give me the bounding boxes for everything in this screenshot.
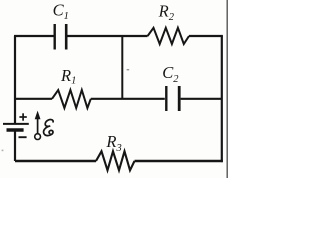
wire middle-left segment: [15, 98, 52, 100]
scan speck near C2: [127, 69, 130, 70]
wire middle-center segment: [91, 98, 165, 100]
wire bottom-left segment: [15, 160, 96, 162]
capacitor C1: [55, 24, 66, 50]
battery: [3, 124, 29, 130]
wire top-middle segment: [67, 35, 148, 37]
wire top-left segment: [14, 35, 54, 37]
wire top-right segment: [189, 35, 223, 37]
scan speck bottom-left: [2, 150, 4, 152]
emf arrow: [35, 111, 41, 140]
wire left side lower: [14, 131, 16, 162]
wire middle vertical: [121, 36, 123, 99]
resistor R2: [148, 28, 189, 44]
emf script-E symbol: [44, 120, 54, 136]
wire bottom-right segment: [135, 160, 223, 162]
wire middle-right segment: [181, 98, 222, 100]
wire left side upper: [14, 36, 16, 124]
battery minus sign: [19, 136, 27, 138]
resistor R1: [52, 90, 91, 108]
resistor R3: [96, 151, 135, 170]
capacitor C2: [166, 86, 179, 111]
page-edge scan line: [226, 0, 228, 178]
battery plus sign: [19, 113, 26, 120]
wire right side: [221, 36, 223, 162]
